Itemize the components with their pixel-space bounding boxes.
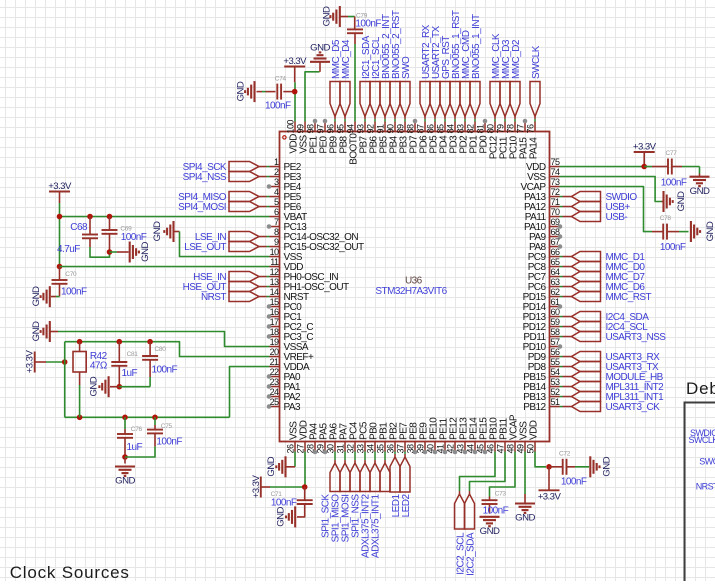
svg-text:4: 4 bbox=[274, 187, 279, 197]
junction C81/GND bbox=[117, 384, 123, 390]
svg-text:LSE_OUT: LSE_OUT bbox=[184, 242, 226, 253]
net label MPL311_INT1 bbox=[560, 392, 665, 404]
svg-text:92: 92 bbox=[366, 124, 376, 133]
capacitor C68 4.7uF bbox=[57, 217, 98, 256]
pin 88 PD7 bbox=[406, 119, 420, 154]
pin 74 VSS bbox=[527, 167, 560, 183]
svg-text:36: 36 bbox=[385, 444, 395, 453]
svg-text:82: 82 bbox=[466, 124, 476, 133]
pin 5 PE6 bbox=[270, 197, 302, 213]
pin 37 PE7 bbox=[395, 422, 409, 454]
capacitor C74 100nF bbox=[257, 76, 293, 112]
pin 59 PD12 bbox=[523, 317, 560, 333]
wire analog rail top (VREF+) bbox=[65, 342, 270, 357]
svg-text:91: 91 bbox=[376, 124, 386, 133]
pin 39 PE9 bbox=[415, 422, 429, 455]
pin 28 PA4 bbox=[305, 423, 319, 455]
wire +3.3V to analog rail bbox=[46, 359, 68, 365]
pin 56 PD9 bbox=[528, 347, 560, 363]
capacitor C81 1uF bbox=[111, 342, 138, 387]
net label LSE_OUT bbox=[184, 242, 269, 254]
pin 67 PA8 bbox=[529, 237, 562, 253]
net label NRST (Debug frame) bbox=[696, 482, 715, 492]
net label SWO bbox=[400, 56, 412, 122]
svg-text:PA14: PA14 bbox=[529, 137, 540, 160]
net label MMC_D2 bbox=[510, 39, 522, 121]
pin 36 PB2 bbox=[385, 422, 399, 454]
svg-text:GND: GND bbox=[515, 513, 535, 524]
pin 21 VDDA bbox=[270, 357, 310, 373]
pin 32 PC4 bbox=[345, 421, 359, 453]
svg-text:100nF: 100nF bbox=[661, 178, 687, 189]
pin 52 PB13 bbox=[523, 387, 560, 403]
net label I2C4_SCL bbox=[560, 322, 649, 334]
svg-text:MMC_D4: MMC_D4 bbox=[341, 39, 352, 79]
net label HSE_OUT bbox=[183, 282, 270, 294]
capacitor C80 100nF bbox=[142, 342, 177, 387]
svg-text:C68: C68 bbox=[70, 222, 88, 233]
svg-text:30: 30 bbox=[325, 444, 335, 453]
svg-text:88: 88 bbox=[406, 124, 416, 133]
svg-text:100nF: 100nF bbox=[61, 287, 87, 298]
svg-text:80: 80 bbox=[486, 124, 496, 133]
svg-text:72: 72 bbox=[551, 187, 560, 197]
pin 78 PC10 bbox=[506, 122, 520, 160]
svg-text:75: 75 bbox=[551, 157, 560, 167]
svg-text:GND: GND bbox=[115, 476, 135, 487]
svg-text:76: 76 bbox=[526, 124, 536, 133]
net label USART2_TX bbox=[430, 25, 442, 121]
svg-text:SPI4_MOSI: SPI4_MOSI bbox=[178, 202, 226, 213]
ground GND (LSE, pin10 VSS) bbox=[152, 221, 174, 242]
wire VDD pin50 to +3.3V bbox=[535, 452, 546, 467]
pin 13 PH1-OSC_OUT bbox=[270, 277, 350, 293]
pin 50 VDD bbox=[525, 420, 539, 453]
svg-text:46: 46 bbox=[485, 444, 495, 453]
pin 49 VSS bbox=[515, 421, 529, 454]
pin 99 VSS bbox=[296, 122, 310, 154]
net label ADXL375_INT1 bbox=[371, 452, 390, 558]
svg-text:100nF: 100nF bbox=[271, 498, 297, 509]
wire GND to C79 bbox=[340, 16, 355, 18]
svg-text:C81: C81 bbox=[127, 351, 139, 358]
svg-text:1: 1 bbox=[274, 157, 279, 167]
svg-text:47Ω: 47Ω bbox=[90, 361, 108, 372]
wire PB11 to I2C2_SDA label bbox=[470, 452, 506, 492]
pin 20 VREF+ bbox=[270, 347, 314, 363]
pin 62 PD15 bbox=[523, 287, 560, 303]
wire C75 to GND junction bbox=[125, 446, 155, 457]
svg-text:65: 65 bbox=[551, 257, 560, 267]
net label LSE_IN bbox=[195, 232, 270, 244]
pin 29 PA5 bbox=[315, 423, 329, 455]
svg-text:1uF: 1uF bbox=[127, 442, 143, 453]
pin 79 PC11 bbox=[496, 122, 510, 160]
pin 45 PE15 bbox=[475, 417, 489, 455]
net label SWDIO bbox=[560, 192, 638, 204]
ground GND (BOOT0 filter) bbox=[321, 6, 340, 27]
net label USART3_NSS bbox=[560, 332, 667, 344]
+3.3V supply (pin 50) bbox=[538, 467, 562, 503]
svg-text:SWO: SWO bbox=[699, 456, 715, 466]
svg-text:56: 56 bbox=[551, 347, 560, 357]
svg-text:70: 70 bbox=[551, 207, 560, 217]
pin 93 PB7 bbox=[356, 122, 370, 154]
svg-text:64: 64 bbox=[551, 267, 560, 277]
svg-text:GND: GND bbox=[310, 43, 330, 54]
wire +3.3V to pin27 junction bbox=[270, 484, 308, 490]
net label MODULE_HB bbox=[560, 372, 664, 384]
svg-text:C76: C76 bbox=[131, 426, 143, 433]
pin 25 PA3 bbox=[267, 397, 301, 413]
pin 42 PE12 bbox=[445, 417, 459, 455]
net label MMC_D5 bbox=[330, 39, 342, 121]
frame Debug section bbox=[685, 403, 715, 582]
net label USB- bbox=[560, 212, 628, 224]
pin 96 PB9 bbox=[326, 122, 340, 154]
+3.3V supply (pin 27) bbox=[251, 475, 270, 499]
svg-text:100nF: 100nF bbox=[660, 242, 686, 253]
net label BNO055_1_INT bbox=[470, 14, 482, 121]
net label SPI1_MOSI bbox=[341, 452, 360, 543]
net label MMC_D1 bbox=[560, 252, 646, 264]
pin 98 PE1 bbox=[306, 119, 320, 154]
ground GND (C73) bbox=[480, 517, 500, 537]
ground GND (pin 99) bbox=[310, 43, 330, 72]
pin 17 PC2_C bbox=[267, 317, 314, 333]
svg-text:GND: GND bbox=[89, 376, 100, 396]
net label I2C2_SCL bbox=[455, 491, 467, 575]
pin 35 PB1 bbox=[375, 422, 389, 454]
svg-text:5: 5 bbox=[274, 197, 279, 207]
svg-text:37: 37 bbox=[395, 444, 405, 453]
pin 8 PC14-OSC32_ON bbox=[270, 227, 359, 243]
ground GND (C81/C80) bbox=[89, 376, 120, 397]
net label HSE_IN bbox=[193, 272, 269, 284]
svg-text:USB-: USB- bbox=[606, 212, 628, 223]
pin 33 PC5 bbox=[355, 421, 369, 453]
svg-text:1uF: 1uF bbox=[122, 368, 138, 379]
wire VDD pin100 to +3.3V bbox=[294, 82, 296, 121]
wire VCAP pin73 to C78 bbox=[560, 187, 653, 232]
pin 75 VDD bbox=[526, 157, 560, 173]
pin 38 PE8 bbox=[405, 422, 419, 455]
pin 87 PD6 bbox=[416, 122, 430, 154]
pin 3 PE4 bbox=[267, 177, 302, 193]
pin 27 VDD bbox=[295, 420, 309, 453]
net label USART3_CK bbox=[560, 402, 661, 414]
svg-text:95: 95 bbox=[336, 124, 346, 133]
pin 89 PB3 bbox=[396, 122, 410, 154]
net label I2C1_SDA bbox=[360, 35, 372, 121]
pin 30 PA6 bbox=[325, 423, 339, 454]
pin 68 PA9 bbox=[529, 227, 562, 243]
pin 61 PD14 bbox=[523, 297, 563, 313]
pin 86 PD5 bbox=[426, 122, 440, 154]
IC U36 STM32H7A3VIT6 body bbox=[280, 132, 550, 442]
svg-text:GND: GND bbox=[602, 456, 613, 476]
title Clock Sources bbox=[10, 563, 130, 582]
capacitor C72 100nF bbox=[549, 451, 589, 488]
svg-text:79: 79 bbox=[496, 124, 506, 133]
net label MMC_D3 bbox=[500, 39, 512, 121]
svg-text:C74: C74 bbox=[275, 76, 287, 83]
junction C76/C75 bottom bbox=[122, 454, 128, 460]
pin 80 PC12 bbox=[486, 122, 500, 160]
ground GND (left of C74) bbox=[236, 81, 255, 102]
pin 77 PA15 bbox=[516, 119, 530, 160]
pin 2 PE3 bbox=[270, 167, 302, 183]
svg-text:93: 93 bbox=[356, 124, 366, 133]
junction C69/C68/GND bbox=[107, 249, 113, 255]
net label MMC_D7 bbox=[560, 272, 646, 284]
ground GND (C72) bbox=[590, 456, 612, 477]
pin 22 PA0 bbox=[267, 367, 301, 383]
svg-text:GND: GND bbox=[236, 81, 247, 101]
pin 11 VDD bbox=[270, 257, 304, 273]
wire C68 bottom to C69 bottom bbox=[90, 247, 110, 257]
svg-text:35: 35 bbox=[375, 444, 385, 453]
svg-text:GND: GND bbox=[31, 321, 42, 341]
svg-text:33: 33 bbox=[355, 444, 365, 453]
svg-text:2: 2 bbox=[274, 167, 279, 177]
pin 84 PD3 bbox=[446, 122, 460, 154]
wire PB10 to I2C2_SCL label bbox=[460, 452, 496, 492]
svg-text:100nF: 100nF bbox=[355, 19, 381, 30]
pin 57 PD10 bbox=[523, 337, 563, 353]
ground GND (C76/C75) bbox=[115, 457, 135, 487]
wire VSS pin99 to GND bbox=[305, 72, 320, 122]
pin 65 PC8 bbox=[528, 257, 560, 273]
pin 31 PA7 bbox=[335, 423, 349, 454]
svg-text:50: 50 bbox=[525, 444, 535, 453]
net label USART2_RX bbox=[420, 24, 432, 121]
wire +3.3V to VBAT rail bbox=[59, 203, 61, 217]
wire VSS pin74 to GND bbox=[560, 177, 662, 202]
svg-text:31: 31 bbox=[335, 444, 345, 453]
net label MMC_CMD bbox=[460, 30, 472, 121]
net label I2C1_SCL bbox=[370, 36, 382, 121]
ground GND (pin 74) bbox=[662, 191, 688, 212]
svg-text:MMC_D2: MMC_D2 bbox=[511, 39, 522, 79]
net label MPL311_INT2 bbox=[560, 382, 665, 394]
svg-text:USART3_CK: USART3_CK bbox=[606, 402, 661, 413]
svg-text:C73: C73 bbox=[495, 491, 507, 498]
net label USART3_RX bbox=[560, 352, 661, 364]
wire GND to VSSA pin19 bbox=[50, 332, 270, 347]
net label MMC_D6 bbox=[560, 282, 646, 294]
svg-text:60: 60 bbox=[551, 307, 560, 317]
svg-text:19: 19 bbox=[270, 337, 279, 347]
svg-text:GND: GND bbox=[321, 6, 332, 26]
svg-text:GND: GND bbox=[480, 526, 500, 537]
svg-text:+3.3V: +3.3V bbox=[538, 492, 562, 503]
svg-text:C78: C78 bbox=[660, 215, 672, 222]
pin 69 PA10 bbox=[524, 217, 562, 233]
svg-text:GND: GND bbox=[31, 286, 42, 306]
svg-text:89: 89 bbox=[396, 124, 406, 133]
pin 54 PB15 bbox=[523, 367, 560, 383]
svg-text:97: 97 bbox=[316, 124, 326, 133]
wire C80 to GND rail bbox=[119, 386, 150, 388]
svg-text:47: 47 bbox=[495, 444, 505, 453]
ground GND (VSSA) bbox=[31, 321, 50, 342]
pin 94 BOOT0 bbox=[346, 122, 360, 165]
svg-text:+3.3V: +3.3V bbox=[25, 350, 36, 374]
pin 76 PA14 bbox=[526, 122, 540, 160]
svg-text:77: 77 bbox=[516, 124, 526, 133]
svg-text:SWO: SWO bbox=[401, 56, 412, 79]
pin 23 PA1 bbox=[267, 377, 301, 393]
svg-text:9: 9 bbox=[274, 237, 279, 247]
wire VDD pin75 to +3.3V bbox=[560, 166, 645, 168]
pin 19 VSSA bbox=[270, 337, 309, 353]
svg-text:BNO055_1_INT: BNO055_1_INT bbox=[471, 14, 482, 79]
svg-text:66: 66 bbox=[551, 247, 560, 257]
net label GPS_RST bbox=[440, 36, 452, 122]
pin 43 PE13 bbox=[455, 417, 469, 455]
net label LED2 bbox=[400, 452, 412, 518]
svg-text:GND: GND bbox=[275, 506, 286, 526]
+3.3V supply (left rail) bbox=[48, 181, 72, 203]
pin 18 PC3_C bbox=[267, 327, 314, 343]
pin 10 VSS bbox=[270, 247, 303, 263]
pin 73 VCAP bbox=[520, 177, 560, 193]
net label I2C2_SDA bbox=[465, 491, 477, 576]
svg-text:MMC_RST: MMC_RST bbox=[606, 292, 652, 303]
net label SWCLK (Debug frame) bbox=[689, 435, 715, 445]
svg-text:SWCLK: SWCLK bbox=[689, 435, 715, 445]
pin 70 PA11 bbox=[525, 207, 560, 223]
svg-text:98: 98 bbox=[306, 124, 316, 133]
svg-text:VDD: VDD bbox=[529, 420, 540, 440]
+3.3V supply (right) bbox=[633, 141, 657, 166]
net label SPI1_SCK bbox=[321, 452, 340, 538]
svg-text:27: 27 bbox=[295, 444, 305, 453]
net label SPI4_NSS bbox=[183, 172, 270, 184]
svg-text:LED2: LED2 bbox=[401, 494, 412, 518]
svg-text:NRST: NRST bbox=[201, 292, 226, 303]
wire VDD pin27 to +3.3V bbox=[304, 452, 306, 488]
svg-text:3: 3 bbox=[274, 177, 279, 187]
svg-text:100nF: 100nF bbox=[483, 506, 509, 517]
ground GND (pin 26) bbox=[266, 456, 288, 477]
ground GND (pin 49) bbox=[515, 494, 535, 524]
svg-text:USART3_NSS: USART3_NSS bbox=[606, 332, 667, 343]
svg-text:GND: GND bbox=[705, 221, 715, 241]
net label MMC_CLK bbox=[490, 33, 502, 121]
pin 48 VCAP bbox=[505, 414, 519, 453]
svg-text:53: 53 bbox=[551, 377, 560, 387]
svg-text:11: 11 bbox=[270, 257, 279, 267]
wire VBAT rail bbox=[60, 217, 270, 267]
net label BNO055_2_RST bbox=[390, 10, 402, 121]
net label SWO (Debug frame) bbox=[699, 456, 715, 466]
net label SWCLK bbox=[530, 45, 542, 121]
pin 46 PB10 bbox=[485, 417, 499, 454]
title Debug bbox=[686, 379, 715, 398]
svg-text:100nF: 100nF bbox=[121, 232, 147, 243]
junction rail corners bbox=[57, 214, 113, 270]
svg-text:73: 73 bbox=[551, 177, 560, 187]
svg-text:58: 58 bbox=[551, 327, 560, 337]
svg-text:+3.3V: +3.3V bbox=[633, 141, 657, 152]
svg-text:74: 74 bbox=[551, 167, 560, 177]
pin 53 PB14 bbox=[523, 377, 560, 393]
svg-text:6: 6 bbox=[274, 207, 279, 217]
svg-text:100nF: 100nF bbox=[265, 101, 291, 112]
net label NRST bbox=[201, 292, 270, 304]
ground GND (C71) bbox=[275, 506, 295, 527]
capacitor C70 100nF bbox=[51, 267, 87, 298]
svg-text:PB12: PB12 bbox=[523, 402, 546, 413]
capacitor C77 100nF bbox=[644, 150, 699, 189]
net label SPI1_MISO bbox=[331, 452, 350, 543]
svg-text:13: 13 bbox=[270, 277, 279, 287]
svg-text:12: 12 bbox=[270, 267, 279, 277]
svg-text:8: 8 bbox=[274, 227, 279, 237]
ground GND (C78) bbox=[691, 221, 715, 242]
pin 24 PA2 bbox=[267, 387, 301, 403]
svg-text:4.7uF: 4.7uF bbox=[57, 244, 80, 255]
net label MMC_D4 bbox=[340, 39, 352, 121]
svg-text:C80: C80 bbox=[155, 346, 167, 353]
+3.3V supply (top, pin 100) bbox=[283, 56, 307, 82]
junction pin75/C77 bbox=[641, 164, 647, 170]
pin 97 PE0 bbox=[316, 119, 330, 154]
svg-text:83: 83 bbox=[456, 124, 466, 133]
pin 51 PB12 bbox=[523, 397, 560, 413]
capacitor C73 100nF bbox=[482, 491, 509, 517]
svg-text:90: 90 bbox=[386, 124, 396, 133]
svg-text:99: 99 bbox=[296, 124, 306, 133]
svg-text:32: 32 bbox=[345, 444, 355, 453]
svg-text:100: 100 bbox=[286, 120, 296, 134]
svg-text:55: 55 bbox=[551, 357, 560, 367]
pin 81 PD0 bbox=[476, 119, 490, 154]
svg-text:100nF: 100nF bbox=[156, 437, 182, 448]
svg-text:NRST: NRST bbox=[696, 482, 715, 492]
svg-text:34: 34 bbox=[365, 444, 375, 453]
svg-text:86: 86 bbox=[426, 124, 436, 133]
pin 55 PD8 bbox=[528, 357, 560, 373]
pin 100 VDD bbox=[286, 120, 300, 154]
svg-text:7: 7 bbox=[274, 217, 279, 227]
net label ADXL375_INT2 bbox=[361, 452, 380, 558]
pin 92 PB6 bbox=[366, 122, 380, 154]
svg-text:Clock Sources: Clock Sources bbox=[10, 563, 130, 581]
svg-text:87: 87 bbox=[416, 124, 426, 133]
pin 85 PD4 bbox=[436, 122, 450, 154]
wire analog rail bottom bbox=[65, 416, 230, 418]
pin 40 PE10 bbox=[425, 417, 439, 455]
net label MMC_D0 bbox=[560, 262, 646, 274]
net label SWDIO (Debug frame) bbox=[690, 428, 715, 438]
svg-text:49: 49 bbox=[515, 444, 525, 453]
capacitor C69 100nF bbox=[102, 217, 147, 253]
wire VDDA pin21 bbox=[230, 367, 270, 418]
svg-text:59: 59 bbox=[551, 317, 560, 327]
svg-text:81: 81 bbox=[476, 124, 486, 133]
svg-text:SPI4_NSS: SPI4_NSS bbox=[183, 172, 227, 183]
capacitor C75 100nF bbox=[147, 417, 182, 447]
pin 82 PD1 bbox=[466, 122, 480, 154]
wire VDD pin11 rail bbox=[60, 266, 270, 268]
svg-text:U36: U36 bbox=[405, 276, 423, 287]
pin 91 PB5 bbox=[376, 122, 390, 154]
ground GND (C69) bbox=[130, 242, 151, 263]
capacitor C78 100nF bbox=[652, 215, 689, 253]
